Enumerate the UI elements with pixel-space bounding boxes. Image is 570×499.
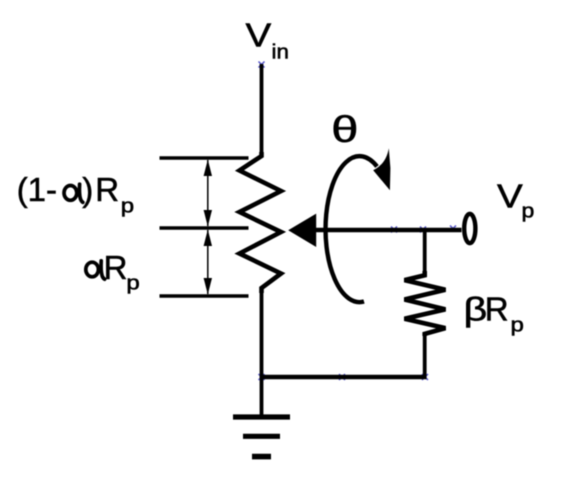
terminal Vp (open circle) <box>464 214 475 243</box>
tick top of Rp <box>160 156 249 159</box>
svg-text:R: R <box>104 249 128 286</box>
svg-text:): ) <box>82 171 93 208</box>
svg-text:p: p <box>522 199 535 222</box>
svg-text:in: in <box>272 42 289 64</box>
node marker on wiper wire at branch <box>420 227 426 233</box>
node marker near Vp terminal <box>450 226 456 232</box>
svg-text:p: p <box>126 271 139 294</box>
svg-text:p: p <box>121 194 134 217</box>
node marker at Vin wire top <box>259 62 265 68</box>
label alphaRp <box>86 261 105 279</box>
wire bottom horizontal <box>260 375 427 380</box>
svg-text:R: R <box>95 171 119 208</box>
dimension arrow alphaRp span <box>204 230 212 295</box>
wire beta Rp bottom <box>423 334 427 378</box>
resistor beta Rp <box>405 271 446 336</box>
svg-text:V: V <box>497 177 523 215</box>
svg-text:R: R <box>485 290 509 327</box>
node marker bottom wire middle <box>339 374 345 380</box>
tick wiper level <box>160 226 249 229</box>
svg-text:p: p <box>511 313 524 336</box>
rotation arc arrowhead <box>373 148 390 190</box>
rotation arc arrow <box>326 156 377 302</box>
svg-text:V: V <box>246 16 272 54</box>
wire wiper to Vp terminal <box>313 228 462 233</box>
wiper arrow of potentiometer <box>288 214 316 247</box>
node marker bottom wire left <box>259 374 265 380</box>
resistor Rp (potentiometer body) <box>240 152 282 293</box>
svg-text:(1-: (1- <box>17 171 57 208</box>
wire wiper line down to beta Rp <box>423 230 427 276</box>
svg-text:θ: θ <box>331 110 358 151</box>
wire Vin to potentiometer top <box>260 64 264 157</box>
tick bottom of Rp <box>160 294 249 297</box>
node marker on wiper wire <box>391 227 397 233</box>
wire potentiometer bottom to ground junction <box>260 288 264 415</box>
ground <box>233 417 290 457</box>
node marker bottom wire right <box>422 374 428 380</box>
svg-text:β: β <box>464 290 488 327</box>
dimension arrow (1-alpha)Rp span <box>204 160 212 227</box>
